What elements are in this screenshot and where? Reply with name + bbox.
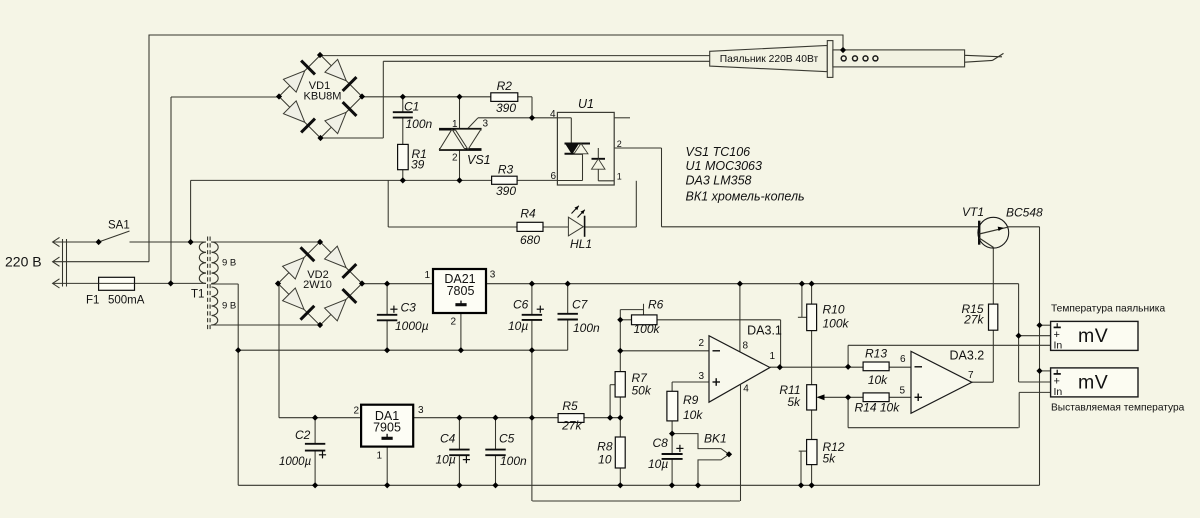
svg-text:5k: 5k xyxy=(823,452,837,466)
svg-text:50k: 50k xyxy=(632,384,652,398)
svg-text:7805: 7805 xyxy=(447,284,475,298)
svg-text:10: 10 xyxy=(598,452,612,466)
svg-text:U1 MOC3063: U1 MOC3063 xyxy=(686,159,762,173)
svg-text:10µ: 10µ xyxy=(436,453,456,467)
svg-text:KBU8M: KBU8M xyxy=(304,91,342,103)
svg-text:C5: C5 xyxy=(499,431,515,445)
svg-text:C8: C8 xyxy=(653,436,669,450)
svg-text:3: 3 xyxy=(418,405,424,416)
svg-text:27k: 27k xyxy=(963,313,984,327)
svg-text:2W10: 2W10 xyxy=(303,279,332,291)
svg-text:3: 3 xyxy=(483,118,489,129)
svg-text:2: 2 xyxy=(698,338,704,349)
svg-text:1: 1 xyxy=(376,451,382,462)
svg-text:4: 4 xyxy=(550,109,556,120)
svg-text:390: 390 xyxy=(496,101,516,115)
svg-text:9 В: 9 В xyxy=(222,301,236,312)
svg-text:3: 3 xyxy=(490,270,496,281)
svg-text:C6: C6 xyxy=(513,298,529,312)
svg-text:2: 2 xyxy=(617,139,622,149)
svg-text:5: 5 xyxy=(899,385,905,396)
svg-text:6: 6 xyxy=(900,354,906,365)
svg-text:1: 1 xyxy=(452,119,458,130)
svg-text:R5: R5 xyxy=(562,399,578,413)
svg-text:In: In xyxy=(1054,339,1063,351)
svg-text:VS1 TC106: VS1 TC106 xyxy=(686,145,751,159)
svg-text:R8: R8 xyxy=(597,439,613,453)
svg-text:R13: R13 xyxy=(865,347,887,361)
svg-text:mV: mV xyxy=(1078,372,1108,394)
svg-text:2: 2 xyxy=(450,316,456,327)
svg-text:HL1: HL1 xyxy=(570,237,592,251)
svg-text:2: 2 xyxy=(353,405,359,416)
svg-text:DA3.1: DA3.1 xyxy=(747,324,782,338)
svg-text:10k: 10k xyxy=(868,373,888,387)
svg-text:DA3 LM358: DA3 LM358 xyxy=(686,174,752,188)
svg-text:BC548: BC548 xyxy=(1006,205,1043,219)
svg-text:SA1: SA1 xyxy=(108,220,130,232)
svg-text:R2: R2 xyxy=(497,79,513,93)
svg-text:R14 10k: R14 10k xyxy=(855,401,901,415)
svg-text:2: 2 xyxy=(452,153,458,164)
svg-text:100k: 100k xyxy=(823,316,850,330)
svg-text:10µ: 10µ xyxy=(508,319,528,333)
svg-text:100n: 100n xyxy=(406,117,433,131)
svg-text:C4: C4 xyxy=(440,431,456,445)
svg-text:1000µ: 1000µ xyxy=(395,319,429,333)
svg-text:1: 1 xyxy=(424,270,430,281)
svg-text:39: 39 xyxy=(411,158,425,172)
svg-text:1: 1 xyxy=(770,351,776,362)
svg-text:680: 680 xyxy=(520,233,540,247)
svg-text:R4: R4 xyxy=(520,206,536,220)
svg-text:27k: 27k xyxy=(561,419,582,433)
svg-text:5k: 5k xyxy=(787,395,801,409)
svg-text:In: In xyxy=(1054,386,1063,398)
svg-text:C7: C7 xyxy=(572,298,589,312)
svg-text:10µ: 10µ xyxy=(648,457,668,471)
svg-text:1: 1 xyxy=(617,171,622,181)
svg-text:VT1: VT1 xyxy=(962,205,984,219)
svg-text:Температура паяльника: Температура паяльника xyxy=(1051,303,1165,314)
svg-text:R6: R6 xyxy=(648,297,664,311)
svg-text:C2: C2 xyxy=(295,428,311,442)
svg-text:R9: R9 xyxy=(683,393,699,407)
svg-text:390: 390 xyxy=(496,184,516,198)
svg-text:R3: R3 xyxy=(498,162,514,176)
svg-text:BK1: BK1 xyxy=(704,432,727,446)
svg-text:8: 8 xyxy=(743,341,749,352)
svg-text:Паяльник 220В 40Вт: Паяльник 220В 40Вт xyxy=(720,54,819,65)
svg-text:Выставляемая температура: Выставляемая температура xyxy=(1051,403,1185,414)
svg-text:1000µ: 1000µ xyxy=(279,456,312,468)
svg-text:100n: 100n xyxy=(500,454,527,468)
svg-text:VS1: VS1 xyxy=(467,153,491,167)
svg-text:100k: 100k xyxy=(634,322,661,336)
svg-text:C1: C1 xyxy=(404,100,419,114)
svg-text:220 В: 220 В xyxy=(5,254,42,270)
svg-text:6: 6 xyxy=(550,171,556,182)
svg-text:U1: U1 xyxy=(578,97,594,111)
svg-text:T1: T1 xyxy=(191,289,204,301)
svg-text:R10: R10 xyxy=(823,303,845,317)
svg-text:7905: 7905 xyxy=(373,420,401,434)
svg-text:9 В: 9 В xyxy=(222,258,236,269)
svg-text:F1: F1 xyxy=(86,295,99,307)
svg-text:7: 7 xyxy=(968,370,974,381)
svg-text:500mA: 500mA xyxy=(108,295,145,307)
svg-text:mV: mV xyxy=(1078,325,1108,347)
svg-text:10k: 10k xyxy=(683,408,703,422)
svg-text:ВК1 хромель-копель: ВК1 хромель-копель xyxy=(686,190,805,204)
svg-text:100n: 100n xyxy=(573,321,600,335)
svg-text:DA3.2: DA3.2 xyxy=(950,349,985,363)
svg-text:4: 4 xyxy=(743,383,749,394)
svg-text:3: 3 xyxy=(698,371,704,382)
svg-text:C3: C3 xyxy=(401,301,417,315)
